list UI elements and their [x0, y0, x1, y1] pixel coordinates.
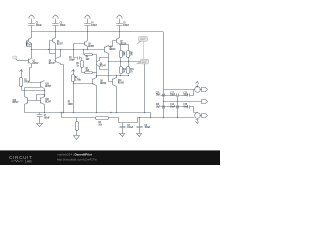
svg-text:1R: 1R: [130, 53, 132, 57]
svg-text:BD139: BD139: [120, 42, 126, 46]
svg-text:100nF: 100nF: [36, 23, 42, 27]
svg-text:BD140: BD140: [118, 81, 124, 85]
svg-text:100nF: 100nF: [123, 23, 129, 27]
svg-text:100pF: 100pF: [69, 57, 75, 61]
svg-text:2k2: 2k2: [86, 68, 90, 72]
svg-text:1R: 1R: [123, 69, 125, 73]
svg-text:BC547: BC547: [45, 100, 51, 104]
svg-text:10uF: 10uF: [156, 93, 161, 97]
svg-text:BC547: BC547: [33, 61, 39, 65]
svg-text:http://circuitlab.com/c2re427w: http://circuitlab.com/c2re427w: [57, 157, 98, 161]
svg-text:BC557: BC557: [57, 41, 63, 45]
svg-text:10uF: 10uF: [156, 104, 161, 108]
svg-text:LAB: LAB: [25, 160, 33, 164]
svg-text:1R: 1R: [130, 69, 132, 73]
svg-text:1R: 1R: [123, 53, 125, 57]
svg-text:100uF: 100uF: [145, 125, 151, 129]
svg-text:10uF: 10uF: [183, 104, 188, 108]
svg-text:100nF: 100nF: [60, 23, 66, 27]
svg-text:BC547: BC547: [45, 84, 51, 88]
svg-text:BD139: BD139: [109, 47, 115, 51]
svg-text:BC557: BC557: [88, 44, 94, 48]
svg-text:matheb034 | DanedilPilot: matheb034 | DanedilPilot: [57, 152, 92, 156]
svg-text:BC547: BC547: [49, 61, 55, 65]
svg-text:10uF: 10uF: [170, 93, 175, 97]
svg-text:10k: 10k: [98, 122, 102, 126]
svg-text:BC547: BC547: [13, 100, 19, 104]
svg-text:BD139: BD139: [100, 81, 106, 85]
svg-text:1.78k: 1.78k: [75, 78, 81, 82]
svg-text:BC557: BC557: [26, 43, 32, 47]
svg-text:2k2: 2k2: [86, 57, 90, 61]
svg-text:BC547: BC547: [100, 64, 106, 68]
svg-text:100k: 100k: [24, 80, 29, 84]
svg-text:100nF: 100nF: [91, 23, 97, 27]
svg-text:10uF: 10uF: [183, 93, 188, 97]
svg-text:100R: 100R: [68, 102, 73, 106]
svg-text:100uF: 100uF: [44, 116, 50, 120]
svg-text:100uF: 100uF: [127, 125, 133, 129]
svg-text:10uF: 10uF: [170, 104, 175, 108]
